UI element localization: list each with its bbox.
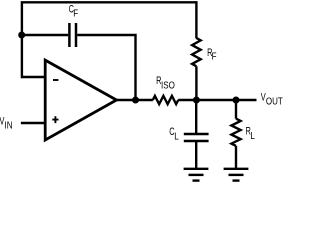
label V_OUT (output net name) [261, 91, 283, 106]
node B: op-amp output junction dot [132, 97, 139, 104]
node D: V_OUT / R_L junction dot [233, 97, 240, 104]
wire: inverting input lead [22, 76, 45, 78]
wire: feedback loop left vertical + top run + R_F top lead [22, 2, 197, 78]
label C_F (capacitor C_F value label) [69, 3, 79, 19]
svg-text:L: L [174, 130, 178, 141]
svg-text:ISO: ISO [161, 79, 175, 90]
ground symbol under C_L [184, 169, 209, 181]
node C: R_ISO / R_F / C_L junction dot [193, 97, 200, 104]
wire: op-amp output to R_ISO [117, 99, 153, 101]
wire: R_L top lead [235, 100, 237, 119]
resistor R_F [192, 38, 201, 66]
node A: inverting-input / C_F junction dot [18, 32, 25, 39]
svg-text:L: L [250, 130, 254, 141]
resistor R_ISO [153, 96, 179, 104]
svg-text:OUT: OUT [266, 95, 283, 106]
wire: R_L bottom lead [235, 146, 237, 169]
wire: C_F right lead and drop to output node [77, 35, 135, 100]
label C_L (capacitor C_L value label) [169, 126, 178, 142]
svg-text:F: F [212, 51, 217, 62]
label R_F (resistor R_F value label) [207, 47, 217, 62]
capacitor C_L [184, 134, 209, 141]
wire: R_F bottom lead [195, 66, 197, 100]
label R_L (resistor R_L value label) [246, 125, 255, 141]
svg-text:IN: IN [5, 120, 13, 131]
ground symbol under R_L [224, 169, 249, 181]
op-amp U1 non-inverting input plus sign [52, 116, 58, 123]
wire: C_L top lead [195, 100, 197, 133]
wire: R_ISO to V_OUT [178, 99, 256, 101]
svg-text:F: F [73, 8, 78, 19]
wire: V_IN lead to non-inverting input [21, 122, 45, 124]
label V_IN (input net name) [0, 115, 13, 131]
wire: C_F left lead [22, 34, 68, 36]
op-amp U1 triangle [45, 60, 116, 140]
op-amp U1 inverting input minus sign [53, 79, 58, 81]
label R_ISO (resistor R_ISO value label) [156, 75, 175, 91]
capacitor C_F [69, 23, 76, 47]
resistor R_L [231, 119, 240, 146]
wire: C_L bottom lead [195, 141, 197, 169]
